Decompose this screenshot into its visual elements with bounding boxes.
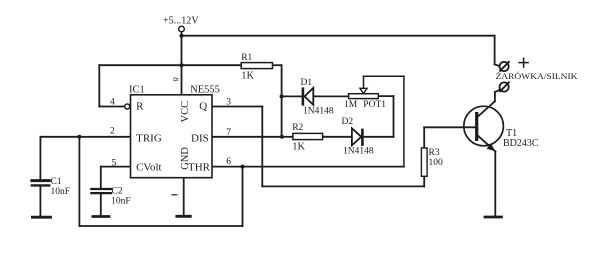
svg-text:D2: D2	[342, 117, 354, 127]
svg-text:10nF: 10nF	[111, 196, 131, 206]
svg-text:8: 8	[171, 77, 180, 81]
svg-text:ŻARÓWKA/SILNIK: ŻARÓWKA/SILNIK	[496, 71, 579, 81]
svg-text:10nF: 10nF	[51, 187, 71, 197]
svg-text:D1: D1	[301, 78, 313, 88]
svg-text:1M: 1M	[344, 100, 358, 110]
svg-text:1K: 1K	[292, 142, 305, 153]
svg-text:R3: R3	[429, 148, 440, 158]
svg-text:7: 7	[226, 128, 231, 138]
svg-text:R2: R2	[292, 123, 303, 133]
svg-text:1N4148: 1N4148	[303, 107, 334, 117]
svg-text:1K: 1K	[241, 70, 254, 81]
svg-text:3: 3	[226, 97, 231, 107]
svg-text:2: 2	[110, 126, 115, 136]
svg-text:6: 6	[226, 157, 231, 167]
svg-text:GND: GND	[180, 147, 191, 170]
svg-text:THR: THR	[188, 161, 211, 173]
svg-text:NE555: NE555	[190, 85, 220, 96]
svg-text:VCC: VCC	[180, 101, 191, 123]
svg-text:4: 4	[110, 97, 115, 107]
svg-text:BD243C: BD243C	[503, 138, 539, 149]
svg-text:CVolt: CVolt	[136, 161, 161, 173]
svg-text:C1: C1	[51, 177, 62, 187]
svg-text:+5...12V: +5...12V	[163, 15, 199, 26]
svg-text:100: 100	[429, 158, 444, 168]
svg-text:C2: C2	[112, 186, 123, 196]
svg-text:Q: Q	[199, 101, 207, 113]
svg-text:R1: R1	[241, 53, 252, 63]
svg-text:POT1: POT1	[363, 100, 386, 110]
svg-text:TRIG: TRIG	[136, 132, 162, 144]
svg-text:5: 5	[112, 159, 117, 169]
svg-text:1N4148: 1N4148	[343, 146, 374, 156]
svg-text:IC1: IC1	[129, 85, 145, 96]
svg-text:DIS: DIS	[191, 132, 209, 144]
svg-text:R: R	[136, 101, 144, 113]
svg-text:T1: T1	[506, 128, 517, 139]
